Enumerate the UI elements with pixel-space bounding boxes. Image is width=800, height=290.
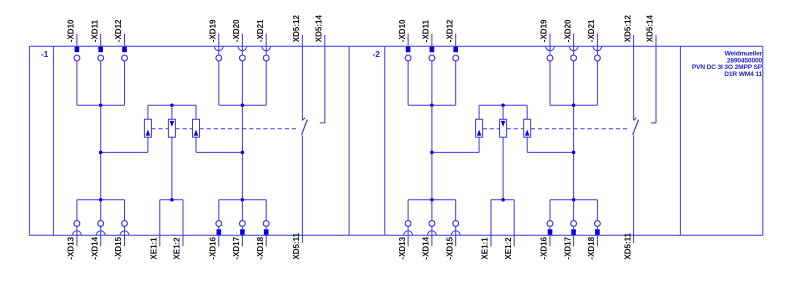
svg-text:-XD14: -XD14 xyxy=(422,236,431,259)
terminal -XD18 (block 2) xyxy=(587,221,600,260)
terminal XD5:14 (block 1) xyxy=(315,15,325,47)
wire arrester F2 bottom lead to XE bus (block 1) xyxy=(171,137,173,200)
wire lower bus down to -XD17 (block 2) xyxy=(573,200,575,221)
svg-text:XE1:1: XE1:1 xyxy=(150,237,159,260)
wire upper bus XD10-XD12 (block 2) xyxy=(408,104,456,106)
terminal -XD13 (block 2) xyxy=(398,221,413,260)
svg-text:XE1:2: XE1:2 xyxy=(173,237,182,260)
wire lower bus XE1:1-XE1:2 (block 2) xyxy=(491,199,514,201)
svg-text:-XD10: -XD10 xyxy=(67,19,76,42)
terminal -XD12 (block 2) xyxy=(445,19,458,61)
wire lower bus XD16-XD18 (block 2) xyxy=(550,199,597,201)
svg-text:-XD14: -XD14 xyxy=(90,236,99,259)
terminal -XD19 (block 1) xyxy=(209,19,224,61)
wire XD11 column to mid junction (block 1) xyxy=(100,105,102,152)
svg-text:-XD13: -XD13 xyxy=(67,236,76,259)
terminal -XD19 (block 2) xyxy=(540,19,555,61)
fixed contact arm of XD5:14 (block 1) xyxy=(320,122,325,124)
surge arrester F3 (right, varistor up) (block 2) xyxy=(524,119,531,137)
wire arrester F3 top lead (block 2) xyxy=(526,105,528,119)
junction dot XD17/lower bus (block 2) xyxy=(572,198,576,202)
terminal -XD12 (block 1) xyxy=(114,19,127,61)
terminal -XD10 (block 2) xyxy=(398,19,411,61)
wire lower bus down to -XD16 (block 1) xyxy=(218,200,220,221)
svg-text:-XD18: -XD18 xyxy=(256,236,265,259)
wire XD11 column to mid junction (block 2) xyxy=(431,105,433,152)
wire from -XD11 down to upper bus (block 1) xyxy=(100,61,102,105)
frame bottom border xyxy=(29,234,762,236)
wire from -XD10 down to upper bus (block 1) xyxy=(76,61,78,105)
fixed contact arm of XD5:14 (block 2) xyxy=(651,122,656,124)
terminal -XD14 (block 2) xyxy=(422,221,437,260)
wire lower bus down to -XD17 (block 1) xyxy=(241,200,243,221)
wire lower bus down to -XD18 (block 2) xyxy=(596,200,598,221)
terminal XE1:1 (block 2) xyxy=(481,200,491,260)
terminal XD5:11 (block 2) xyxy=(623,232,633,259)
junction dot F3/XD20 column (block 2) xyxy=(572,151,576,155)
terminal -XD18 (block 1) xyxy=(256,221,269,260)
svg-text:-XD10: -XD10 xyxy=(398,19,407,42)
junction dot arrester top bus (block 2) xyxy=(501,103,505,107)
svg-text:-XD20: -XD20 xyxy=(563,19,572,42)
terminal -XD21 (block 2) xyxy=(587,19,602,61)
svg-text:-XD15: -XD15 xyxy=(445,236,454,259)
wire lower bus XD13-XD15 (block 1) xyxy=(77,199,125,201)
terminal -XD14 (block 1) xyxy=(90,221,105,260)
svg-text:-XD16: -XD16 xyxy=(540,236,549,259)
wire arrester F2 top lead (block 1) xyxy=(171,105,173,119)
contact fixed-end tick (block 2) xyxy=(634,118,637,121)
terminal -XD11 (block 2) xyxy=(422,19,435,60)
svg-text:-XD17: -XD17 xyxy=(563,236,572,259)
dashed status linkage line (block 1) xyxy=(151,128,298,130)
terminal XD5:12 (block 1) xyxy=(292,15,302,47)
device -1 label column divider xyxy=(52,46,54,235)
junction dot XD14/lower bus (block 2) xyxy=(430,198,434,202)
wire arrester F2 top lead (block 2) xyxy=(502,105,504,119)
terminal -XD10 (block 1) xyxy=(67,19,80,61)
junction dot XD17/lower bus (block 1) xyxy=(241,198,245,202)
terminal XD5:12 (block 2) xyxy=(623,15,633,47)
svg-text:-XD20: -XD20 xyxy=(232,19,241,42)
wire arrester top bus (block 1) xyxy=(148,104,196,106)
terminal XE1:2 (block 2) xyxy=(504,200,514,260)
wire arrester F1 bottom lead (block 1) xyxy=(147,137,149,152)
terminal -XD15 (block 1) xyxy=(114,221,129,260)
wire upper bus XD10-XD12 (block 1) xyxy=(77,104,125,106)
dashed status linkage line (block 2) xyxy=(483,128,630,130)
wire arrester F3 top lead (block 1) xyxy=(195,105,197,119)
wire arrester F3 bottom lead (block 1) xyxy=(195,137,197,152)
svg-text:-XD15: -XD15 xyxy=(114,236,123,259)
wire upper bus XD19-XD21 (block 2) xyxy=(550,104,597,106)
junction dot XD14/lower bus (block 1) xyxy=(99,198,103,202)
wire arrester F1 top lead (block 1) xyxy=(147,105,149,119)
junction dot XD11/upper bus (block 2) xyxy=(430,103,434,107)
surge arrester F2 (middle, varistor down) (block 2) xyxy=(500,119,507,137)
svg-text:XD5:14: XD5:14 xyxy=(646,15,655,43)
svg-text:-XD21: -XD21 xyxy=(256,19,265,42)
terminal -XD15 (block 2) xyxy=(445,221,460,260)
svg-text:XD5:12: XD5:12 xyxy=(292,15,301,43)
contact blade (changeover switch) (block 1) xyxy=(302,120,308,135)
wire lower bus down to -XD14 (block 1) xyxy=(100,200,102,221)
junction dot F1/XD11 column (block 1) xyxy=(99,151,103,155)
wire lower bus XE1:1-XE1:2 (block 1) xyxy=(160,199,183,201)
svg-text:-1: -1 xyxy=(41,49,49,59)
svg-text:-2: -2 xyxy=(372,49,380,59)
surge arrester F2 (middle, varistor down) (block 1) xyxy=(168,119,175,137)
wire contact down to XD5:11 (block 2) xyxy=(633,135,635,235)
junction dot XD20/upper bus (block 2) xyxy=(572,103,576,107)
svg-text:XD5:12: XD5:12 xyxy=(623,15,632,43)
wire F1 bottom to XD11 column (block 1) xyxy=(101,151,148,153)
junction dot F3/XD20 column (block 1) xyxy=(241,151,245,155)
wire arrester F1 top lead (block 2) xyxy=(478,105,480,119)
terminal -XD21 (block 1) xyxy=(256,19,271,61)
wire F3 bottom to XD20 column (block 1) xyxy=(196,151,242,153)
wire contact down to XD5:11 (block 1) xyxy=(301,135,303,235)
terminal XE1:1 (block 1) xyxy=(150,200,160,260)
terminal -XD16 (block 2) xyxy=(540,221,553,260)
terminal -XD11 (block 1) xyxy=(90,19,103,60)
junction dot F2/XE bus (block 1) xyxy=(170,198,174,202)
wire XD5:12 down to contact (block 2) xyxy=(633,46,635,120)
junction dot XD11/upper bus (block 1) xyxy=(99,103,103,107)
svg-text:-XD19: -XD19 xyxy=(209,19,218,42)
terminal XD5:11 (block 1) xyxy=(292,232,302,259)
divider between device -1 and device -2 xyxy=(348,46,350,235)
svg-text:XD5:11: XD5:11 xyxy=(292,232,301,259)
svg-text:-XD19: -XD19 xyxy=(540,19,549,42)
frame left border xyxy=(28,46,30,235)
wire from -XD19 down to upper bus (block 1) xyxy=(218,61,220,105)
terminal -XD13 (block 1) xyxy=(67,221,82,260)
svg-text:-XD17: -XD17 xyxy=(232,236,241,259)
svg-text:-XD16: -XD16 xyxy=(209,236,218,259)
wire from -XD21 down to upper bus (block 2) xyxy=(596,61,598,105)
wire lower bus XD16-XD18 (block 1) xyxy=(219,199,266,201)
terminal XD5:14 (block 2) xyxy=(646,15,656,47)
wire XD11 column mid to lower bus (block 2) xyxy=(431,152,433,199)
wire from -XD12 down to upper bus (block 2) xyxy=(455,61,457,105)
frame top border xyxy=(29,45,762,47)
wire lower bus XD13-XD15 (block 2) xyxy=(408,199,456,201)
wire from -XD20 down to upper bus (block 1) xyxy=(241,61,243,105)
junction dot arrester top bus (block 1) xyxy=(170,103,174,107)
wire upper bus XD19-XD21 (block 1) xyxy=(219,104,266,106)
wire XD11 column mid to lower bus (block 1) xyxy=(100,152,102,199)
terminal -XD16 (block 1) xyxy=(209,221,222,260)
wire lower bus down to -XD18 (block 1) xyxy=(265,200,267,221)
wire XD5:12 down to contact (block 1) xyxy=(301,46,303,120)
terminal -XD20 (block 2) xyxy=(563,19,578,61)
wire F1 bottom to XD11 column (block 2) xyxy=(432,151,479,153)
wire arrester F2 bottom lead to XE bus (block 2) xyxy=(502,137,504,200)
junction dot XD20/upper bus (block 1) xyxy=(241,103,245,107)
terminal -XD20 (block 1) xyxy=(232,19,247,61)
wire arrester F3 bottom lead (block 2) xyxy=(526,137,528,152)
device -2 label column divider xyxy=(384,46,386,235)
wire from -XD21 down to upper bus (block 1) xyxy=(265,61,267,105)
frame right border xyxy=(762,46,764,235)
wire XD20 column to mid junction (block 2) xyxy=(573,105,575,152)
terminal XE1:2 (block 1) xyxy=(173,200,183,260)
svg-text:XD5:14: XD5:14 xyxy=(315,15,324,43)
svg-text:D1R WM4 11: D1R WM4 11 xyxy=(724,71,762,78)
wire XD20 column to mid junction (block 1) xyxy=(241,105,243,152)
svg-text:-XD12: -XD12 xyxy=(114,19,123,42)
svg-text:-XD18: -XD18 xyxy=(587,236,596,259)
terminal -XD17 (block 1) xyxy=(232,221,245,260)
svg-text:-XD13: -XD13 xyxy=(398,236,407,259)
wire XD5:14 down to fixed contact (block 1) xyxy=(324,46,326,123)
svg-text:-XD11: -XD11 xyxy=(90,19,99,42)
surge arrester F3 (right, varistor up) (block 1) xyxy=(193,119,200,137)
wire lower bus down to -XD15 (block 2) xyxy=(455,200,457,221)
wire XD20 column mid to lower bus (block 1) xyxy=(241,152,243,199)
junction dot F2/XE bus (block 2) xyxy=(501,198,505,202)
svg-text:-XD11: -XD11 xyxy=(422,19,431,42)
svg-text:-XD12: -XD12 xyxy=(445,19,454,42)
wire lower bus down to -XD13 (block 1) xyxy=(76,200,78,221)
wire XD5:14 down to fixed contact (block 2) xyxy=(655,46,657,123)
contact blade (changeover switch) (block 2) xyxy=(633,120,639,135)
wire lower bus down to -XD16 (block 2) xyxy=(549,200,551,221)
contact fixed-end tick (block 1) xyxy=(302,118,305,121)
wire lower bus down to -XD14 (block 2) xyxy=(431,200,433,221)
device -2 right border xyxy=(679,46,681,235)
wire XD20 column mid to lower bus (block 2) xyxy=(573,152,575,199)
svg-text:-XD21: -XD21 xyxy=(587,19,596,42)
wire from -XD19 down to upper bus (block 2) xyxy=(549,61,551,105)
wire from -XD10 down to upper bus (block 2) xyxy=(407,61,409,105)
wire lower bus down to -XD13 (block 2) xyxy=(407,200,409,221)
svg-text:XE1:1: XE1:1 xyxy=(481,237,490,260)
wire from -XD20 down to upper bus (block 2) xyxy=(573,61,575,105)
wire lower bus down to -XD15 (block 1) xyxy=(124,200,126,221)
svg-text:XE1:2: XE1:2 xyxy=(504,237,513,260)
wire from -XD12 down to upper bus (block 1) xyxy=(124,61,126,105)
junction dot F1/XD11 column (block 2) xyxy=(430,151,434,155)
wire arrester F1 bottom lead (block 2) xyxy=(478,137,480,152)
svg-text:XD5:11: XD5:11 xyxy=(623,232,632,259)
wire from -XD11 down to upper bus (block 2) xyxy=(431,61,433,105)
wire arrester top bus (block 2) xyxy=(479,104,527,106)
terminal -XD17 (block 2) xyxy=(563,221,576,260)
wire F3 bottom to XD20 column (block 2) xyxy=(527,151,573,153)
surge arrester F1 (left, varistor up) (block 2) xyxy=(476,119,483,137)
surge arrester F1 (left, varistor up) (block 1) xyxy=(144,119,151,137)
